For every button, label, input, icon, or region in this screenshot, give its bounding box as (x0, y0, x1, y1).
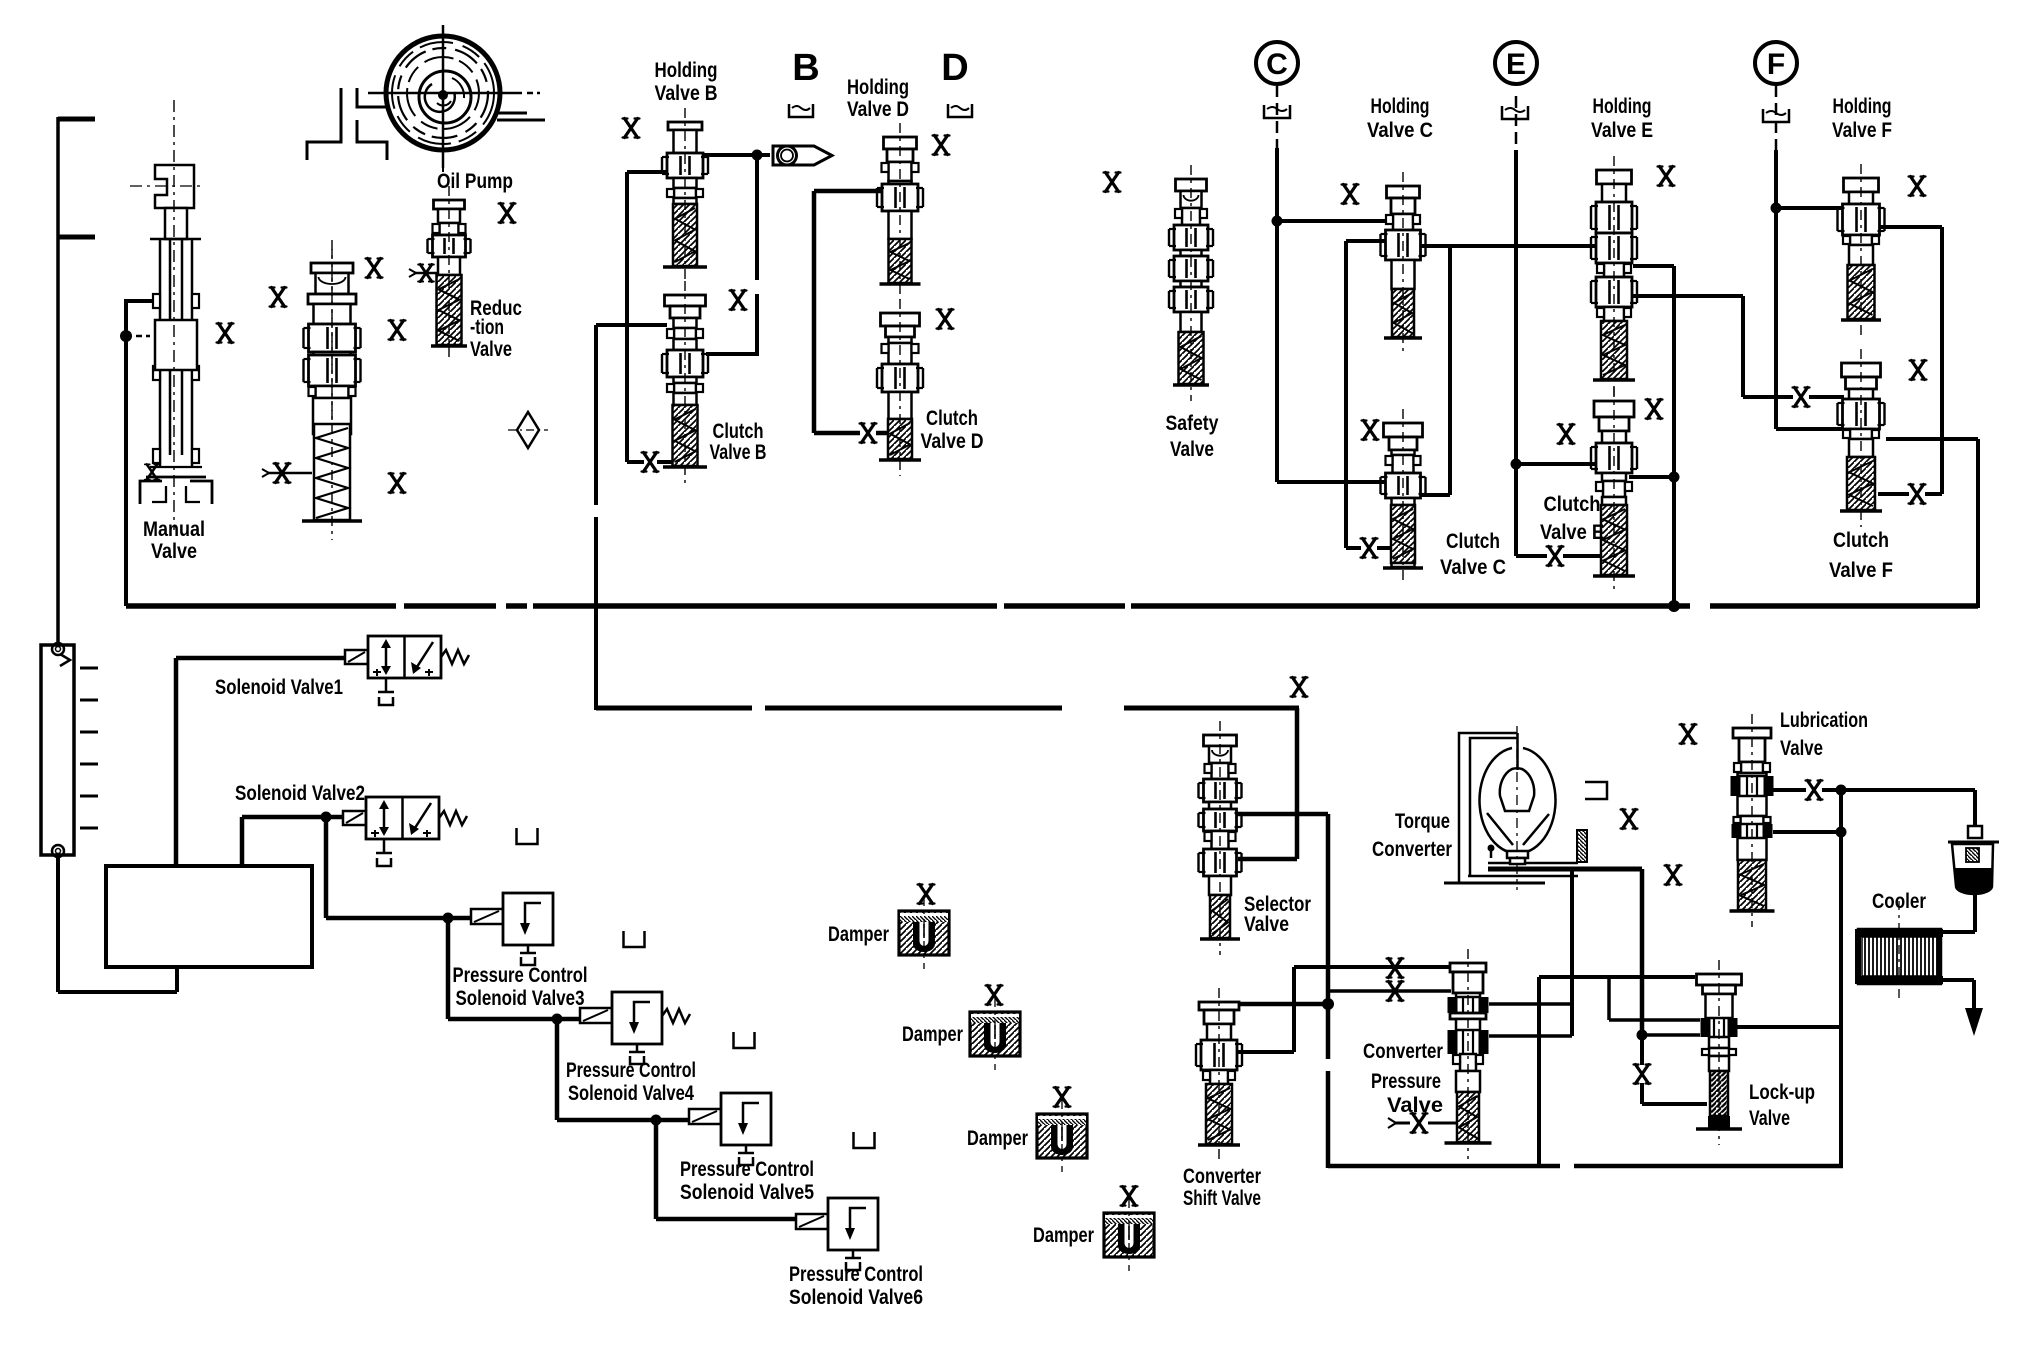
svg-text:B: B (792, 47, 819, 89)
svg-text:Converter: Converter (1363, 1040, 1443, 1063)
svg-text:Clutch: Clutch (926, 407, 978, 430)
svg-text:Damper: Damper (828, 923, 889, 946)
svg-text:Valve: Valve (470, 338, 512, 361)
svg-text:Solenoid Valve4: Solenoid Valve4 (568, 1082, 694, 1105)
svg-text:Cooler: Cooler (1872, 890, 1926, 913)
svg-text:Valve E: Valve E (1540, 521, 1604, 544)
svg-text:Solenoid Valve2: Solenoid Valve2 (235, 782, 365, 805)
svg-text:Valve: Valve (151, 540, 197, 563)
svg-text:Manual: Manual (143, 518, 205, 541)
svg-text:Valve: Valve (1170, 438, 1214, 461)
svg-text:Torque: Torque (1395, 810, 1450, 833)
svg-text:Valve F: Valve F (1832, 119, 1892, 142)
svg-text:Holding: Holding (1593, 95, 1652, 118)
svg-text:Safety: Safety (1166, 412, 1219, 435)
svg-text:Valve B: Valve B (710, 441, 767, 464)
svg-text:Pressure Control: Pressure Control (680, 1158, 814, 1181)
svg-text:Holding: Holding (1371, 95, 1430, 118)
svg-text:Holding: Holding (1833, 95, 1892, 118)
svg-text:Pressure: Pressure (1371, 1070, 1441, 1093)
svg-text:Valve D: Valve D (847, 98, 909, 121)
svg-text:Clutch: Clutch (1544, 493, 1601, 516)
svg-text:Valve: Valve (1244, 913, 1289, 936)
svg-text:Valve F: Valve F (1829, 559, 1893, 582)
svg-text:Holding: Holding (655, 59, 718, 82)
svg-text:Clutch: Clutch (713, 420, 764, 443)
svg-text:F: F (1767, 48, 1785, 81)
svg-text:Damper: Damper (1033, 1224, 1094, 1247)
svg-text:E: E (1506, 48, 1526, 81)
svg-text:Lubrication: Lubrication (1780, 709, 1868, 732)
svg-text:Valve B: Valve B (655, 82, 718, 105)
svg-text:Damper: Damper (902, 1023, 963, 1046)
svg-text:Clutch: Clutch (1833, 529, 1889, 552)
svg-text:Holding: Holding (847, 76, 909, 99)
svg-text:Pressure Control: Pressure Control (453, 964, 588, 987)
svg-text:Shift Valve: Shift Valve (1183, 1187, 1261, 1210)
svg-text:Clutch: Clutch (1446, 530, 1500, 553)
svg-text:Valve E: Valve E (1591, 119, 1653, 142)
svg-text:-tion: -tion (470, 316, 504, 339)
svg-text:C: C (1266, 48, 1288, 81)
svg-text:Lock-up: Lock-up (1749, 1081, 1815, 1104)
svg-text:D: D (941, 47, 968, 89)
svg-text:Valve D: Valve D (921, 430, 984, 453)
svg-text:Valve: Valve (1387, 1094, 1443, 1117)
svg-text:Converter: Converter (1372, 838, 1452, 861)
svg-text:Oil Pump: Oil Pump (437, 170, 513, 193)
svg-text:Solenoid Valve1: Solenoid Valve1 (215, 676, 343, 699)
svg-text:Damper: Damper (967, 1127, 1028, 1150)
svg-text:Valve C: Valve C (1367, 119, 1433, 142)
svg-text:Pressure Control: Pressure Control (789, 1263, 923, 1286)
svg-text:Solenoid Valve3: Solenoid Valve3 (456, 987, 585, 1010)
svg-text:Valve: Valve (1780, 737, 1823, 760)
svg-text:Solenoid Valve6: Solenoid Valve6 (789, 1286, 923, 1309)
svg-text:Valve C: Valve C (1440, 556, 1506, 579)
svg-text:Converter: Converter (1183, 1165, 1261, 1188)
svg-text:Solenoid Valve5: Solenoid Valve5 (680, 1181, 814, 1204)
svg-text:Valve: Valve (1749, 1107, 1790, 1130)
svg-text:Pressure Control: Pressure Control (566, 1059, 696, 1082)
